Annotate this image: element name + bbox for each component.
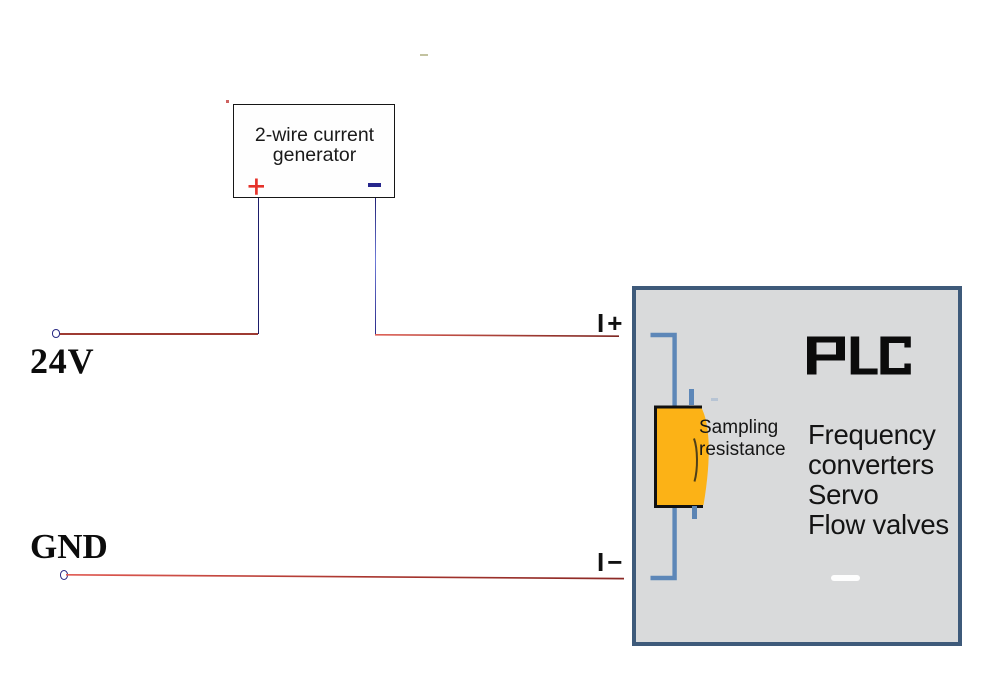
wire GND to I− (red horizontal) — [66, 572, 626, 581]
Sampling resistance label — [699, 417, 786, 460]
sampling resistor R1 (orange with black border) — [650, 400, 720, 515]
2-wire current generator box — [233, 104, 395, 198]
PLC enclosure box — [632, 286, 962, 646]
white dash inside PLC box — [831, 575, 860, 581]
wire from + terminal down (navy vertical) — [258, 198, 260, 334]
GND terminal circle — [60, 570, 68, 580]
terminal − of generator (navy minus) — [368, 183, 381, 187]
blue stub above resistor — [689, 389, 694, 405]
resistor crease mark — [690, 437, 702, 483]
wire − node to I+ (red horizontal) — [375, 333, 620, 338]
24V label — [30, 343, 94, 379]
GND label — [30, 529, 108, 564]
input bracket wire I− (steel blue) — [648, 503, 680, 581]
PLC logo — [800, 330, 920, 382]
blue stub below resistor — [692, 506, 697, 519]
stray olive dash — [420, 54, 428, 56]
stray red tick — [226, 100, 229, 103]
PLC device list text — [808, 420, 949, 540]
wire 24V to + node (red horizontal) — [60, 333, 258, 335]
I− label — [597, 549, 625, 575]
blue dash right of stub — [711, 398, 718, 401]
terminal + of generator (red plus) — [246, 176, 267, 197]
wire from − terminal down (blue vertical) — [375, 198, 377, 335]
I+ label — [597, 310, 625, 336]
label: 2-wire current generator — [233, 125, 396, 166]
input bracket wire I+ (steel blue) — [648, 331, 680, 407]
24V terminal circle — [52, 329, 61, 338]
